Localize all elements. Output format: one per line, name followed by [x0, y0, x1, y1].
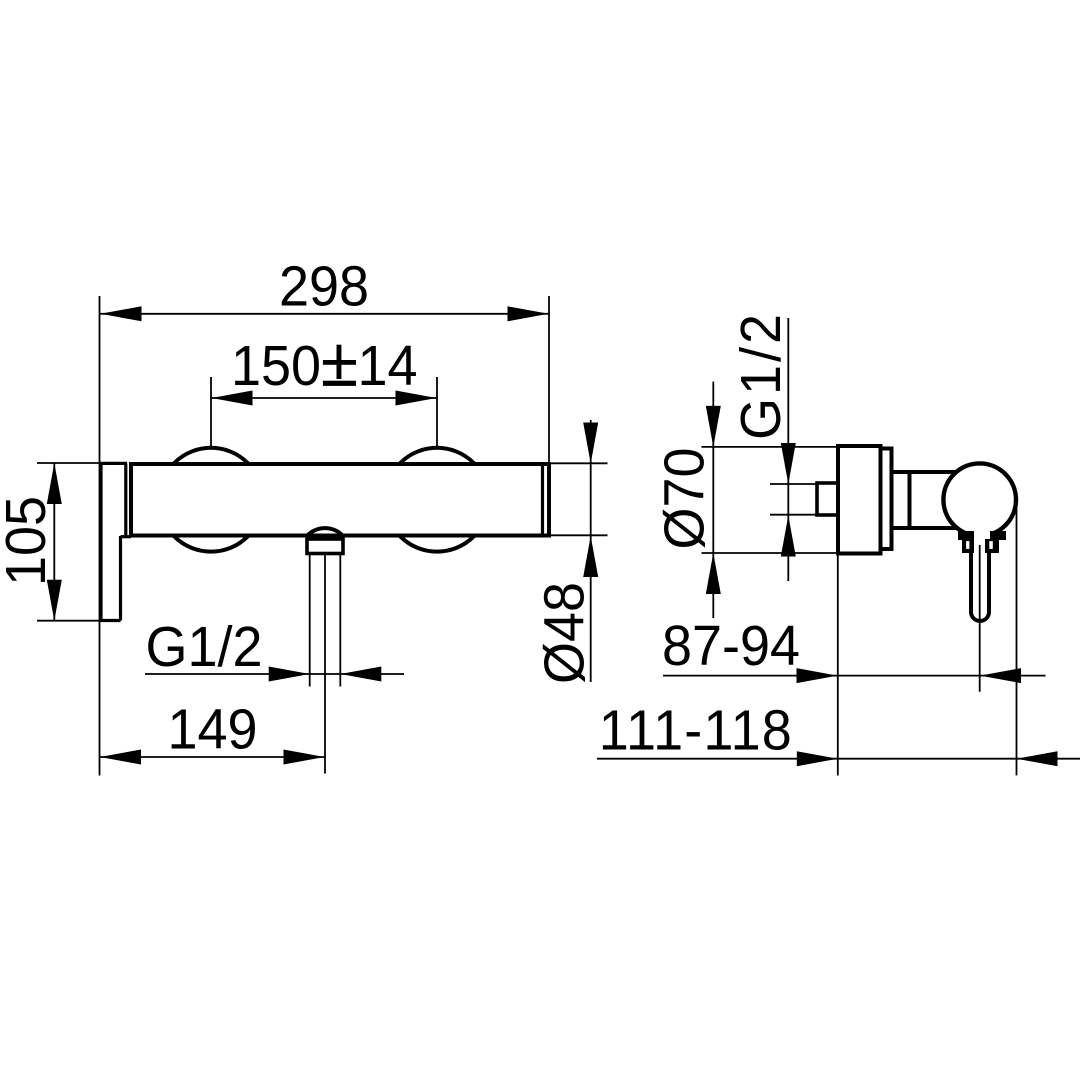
- dimension text 14 tolerance: [357, 334, 417, 398]
- outlet pipe right wall: [339, 554, 341, 687]
- neck opening: [967, 526, 993, 547]
- dimension line 149: [100, 750, 325, 765]
- top extension line of diameter 48: [549, 462, 608, 464]
- side flange rectangle: [838, 446, 881, 554]
- bottom extension line of diameter 70: [702, 552, 839, 554]
- dimension text 105: [0, 496, 57, 586]
- svg-text:G1/2: G1/2: [146, 615, 263, 679]
- bottom extension line of diameter 48: [549, 534, 608, 536]
- dimension line 150±14: [212, 391, 437, 406]
- lever stem: [971, 552, 989, 621]
- svg-text:G1/2: G1/2: [729, 314, 793, 440]
- callout text G1/2 front: [146, 615, 263, 679]
- svg-text:Ø48: Ø48: [532, 582, 596, 684]
- svg-text:111-118: 111-118: [599, 698, 792, 762]
- wall plate bottom edge: [100, 619, 121, 622]
- svg-text:298: 298: [279, 254, 369, 318]
- dimension line diameter 70: [706, 382, 721, 618]
- svg-text:14: 14: [357, 334, 417, 398]
- inlet stub top extension line: [770, 483, 818, 485]
- body right end cap line: [541, 464, 544, 536]
- svg-text:149: 149: [167, 697, 257, 761]
- dimension text 111-118: [599, 698, 792, 762]
- dimension text 150: [231, 334, 321, 398]
- collar ring rectangle: [881, 449, 892, 550]
- left extension line of 298 and 149: [99, 296, 101, 776]
- top extension line of 105: [37, 462, 102, 464]
- top extension line of diameter 70: [702, 446, 839, 448]
- dimension line 298: [100, 306, 549, 321]
- callout line G1/2 side: [781, 318, 796, 581]
- mixer body rectangle: [131, 464, 549, 536]
- right extension line of 298: [548, 296, 550, 463]
- svg-text:87-94: 87-94: [662, 614, 800, 678]
- dimension text 87-94: [662, 614, 800, 678]
- right neck shoulder: [990, 531, 1006, 540]
- dimension text diameter 70: [652, 447, 716, 549]
- handle ball: [943, 463, 1016, 536]
- right mounting flange circle: [385, 448, 489, 552]
- dimension text diameter 48: [532, 582, 596, 684]
- right pivot ear: [985, 539, 999, 553]
- inlet stub bottom extension line: [770, 514, 818, 516]
- plus-minus symbol: [323, 345, 356, 386]
- cylinder joint line: [908, 472, 912, 528]
- left neck shoulder: [958, 531, 974, 540]
- wall plate right lower edge: [119, 536, 122, 621]
- svg-text:Ø70: Ø70: [652, 447, 716, 549]
- left mounting flange circle: [159, 448, 263, 552]
- dimension line 87-94: [663, 668, 1046, 683]
- dimension line 111-118: [597, 751, 1080, 766]
- bottom extension line of 105: [37, 620, 102, 622]
- outlet dome arc: [306, 528, 343, 537]
- outlet pipe centerline: [324, 554, 326, 774]
- right extension line of 150±14: [436, 377, 438, 446]
- dimension line 105: [47, 463, 62, 621]
- dimension text 298: [279, 254, 369, 318]
- wall plate top edge: [100, 462, 128, 465]
- wall plate left edge: [99, 463, 102, 620]
- wall extension line: [837, 554, 839, 776]
- svg-text:105: 105: [0, 496, 57, 586]
- svg-text:150: 150: [231, 334, 321, 398]
- callout line G1/2 front: [145, 667, 404, 682]
- inlet stub square: [817, 483, 838, 515]
- left extension line of 150±14: [210, 377, 212, 446]
- cylinder body side view: [892, 472, 981, 528]
- outlet nut: [307, 539, 343, 554]
- callout text G1/2 side: [729, 314, 793, 440]
- wall plate step edge: [121, 535, 132, 538]
- left pivot ear: [962, 539, 974, 553]
- handle tangent extension line: [1016, 503, 1018, 775]
- outlet pipe left wall: [309, 554, 311, 687]
- dimension line diameter 48: [583, 420, 598, 682]
- wall plate right upper edge: [124, 463, 127, 537]
- handle centerline: [979, 545, 981, 692]
- dimension text 149: [167, 697, 257, 761]
